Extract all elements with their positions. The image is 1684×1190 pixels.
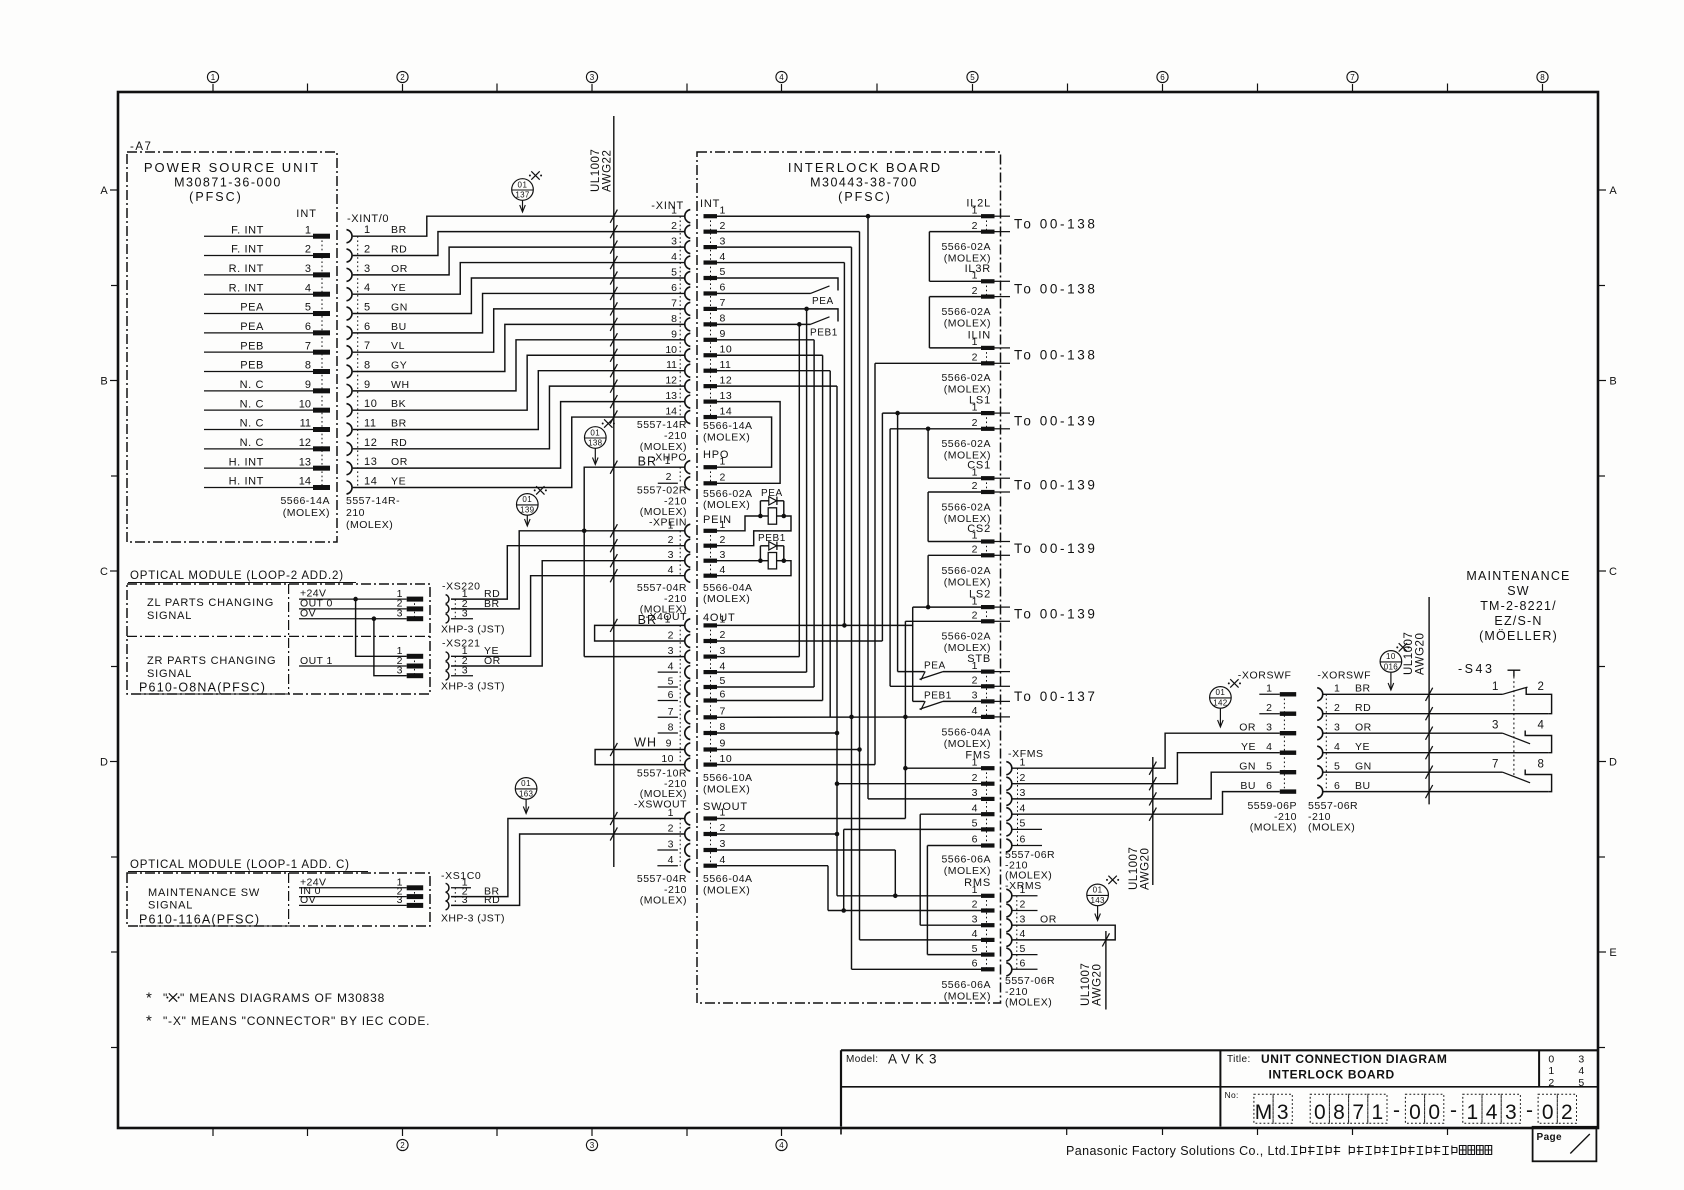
svg-text:1: 1 [972,756,978,768]
svg-text:1: 1 [665,614,671,626]
svg-text:1: 1 [305,224,311,236]
board connector INT [700,198,753,444]
wire INT-3 horizontal [717,246,852,248]
svg-text:5566-02A: 5566-02A [941,631,991,643]
svg-text:RD: RD [391,244,407,256]
svg-text:POWER SOURCE UNIT: POWER SOURCE UNIT [144,160,320,175]
svg-text:INTERLOCK BOARD: INTERLOCK BOARD [788,160,942,175]
wire FMS-5 row [844,828,981,830]
svg-text:(MOLEX): (MOLEX) [703,885,750,897]
svg-text:*: * [146,1013,152,1030]
svg-text:OR: OR [484,655,501,667]
svg-text:XHP-3 (JST): XHP-3 (JST) [441,681,505,693]
wire SWOUT-3 to RMS-1 junction [893,850,898,898]
wire INT-3 to RMS-6 [849,247,854,969]
svg-text:5: 5 [305,302,311,314]
svg-text:4: 4 [1266,741,1272,753]
wire 4OUT-8 row [717,732,837,734]
svg-text:-XINT: -XINT [651,200,684,212]
svg-text:2: 2 [972,544,978,556]
svg-text:3: 3 [397,665,403,677]
optical module loop-1 box [127,873,430,926]
svg-text:R. INT: R. INT [229,263,264,275]
board connector STB [941,653,1010,750]
svg-text:PEIN: PEIN [703,514,732,526]
svg-text:0: 0 [1409,1101,1421,1124]
net label To 00-139 [1014,414,1097,429]
svg-text:PEB1: PEB1 [924,690,952,701]
svg-text:5557-14R-: 5557-14R- [346,495,400,507]
svg-text:UL1007: UL1007 [1128,847,1140,890]
svg-text:6: 6 [668,689,674,701]
wire LS1-2 to CS1-1 [926,427,931,479]
svg-text:(MOLEX): (MOLEX) [703,432,750,444]
svg-text:BK: BK [391,398,406,410]
svg-text:9: 9 [305,379,311,391]
svg-text:3: 3 [972,690,978,702]
svg-text:5: 5 [970,73,975,82]
svg-text:(MOLEX): (MOLEX) [944,865,991,877]
svg-text:-: - [1450,1099,1457,1122]
svg-text:BU: BU [1355,780,1371,792]
svg-text:1: 1 [211,73,216,82]
svg-text:-XORSWF: -XORSWF [1317,670,1371,682]
svg-text:PEB: PEB [240,360,264,372]
svg-text:2: 2 [972,610,978,622]
svg-text:4: 4 [720,660,726,672]
svg-text:5: 5 [720,266,726,278]
svg-text:6: 6 [720,282,726,294]
svg-text:F. INT: F. INT [231,244,264,256]
svg-text:4: 4 [668,564,674,576]
right ruler row letters A-E [1598,185,1617,1048]
svg-text:4: 4 [668,661,674,673]
svg-text:9: 9 [666,738,672,750]
wire INT-4 to 4OUT-1 [842,263,847,628]
cable UL1007 AWG22 vertical line [590,116,614,867]
svg-text:7: 7 [1352,1101,1364,1124]
drawing frame border [118,92,1598,1128]
svg-text:4: 4 [720,251,726,263]
wire FMS-5 to RMS-2 junction [841,829,846,912]
label 5566-02A under CS1 [941,502,991,526]
svg-text:2: 2 [671,220,677,232]
svg-text:F. INT: F. INT [231,224,264,236]
switch contact PEB1 at STB-3 [913,690,981,710]
svg-text:2: 2 [720,534,726,546]
svg-text:MAINTENANCE: MAINTENANCE [1466,569,1570,583]
svg-text:YE: YE [1355,741,1370,753]
svg-text:OR: OR [391,456,408,468]
svg-text:AWG20: AWG20 [1140,848,1152,890]
wire INT-10 to 4OUT-6 [822,355,824,700]
svg-text:1: 1 [668,807,674,819]
wire ILIN-2 row [875,362,981,364]
wire -XINT/0 pin 11 to -XINT pin 11 [353,364,684,429]
svg-text:9: 9 [671,328,677,340]
optical module loop-2 box [127,584,430,694]
label 5566-02A under CS2 [941,565,991,589]
wire -XINT/0 pin 1 to -XINT pin 1 [353,210,684,237]
svg-text:3: 3 [720,549,726,561]
wire FMS-6 to RMS-5 [926,846,928,955]
wire -XORSWF-6 to -S43 [1323,785,1548,798]
svg-text:7: 7 [1492,759,1499,771]
svg-text:7: 7 [720,706,726,718]
svg-text:2: 2 [668,630,674,642]
svg-text:2: 2 [972,285,978,297]
wire FMS-4 to RMS-3 [919,814,921,925]
svg-text:GN: GN [1355,760,1372,772]
svg-text:01: 01 [1093,886,1103,895]
svg-text:2: 2 [972,899,978,911]
note: diagrams of M30838 [146,990,385,1007]
svg-text:To 00-138: To 00-138 [1014,282,1097,297]
net label To 00-137 [1014,689,1097,704]
svg-text:13: 13 [299,456,311,468]
board connector 4OUT [703,612,753,796]
svg-text:(MOLEX): (MOLEX) [703,593,750,605]
svg-text:To 00-139: To 00-139 [1014,541,1097,556]
board connector IL3R [965,263,1010,299]
connector -XINT [637,200,690,464]
svg-text:N. C: N. C [240,398,264,410]
wire LS2-1 row [913,606,981,608]
wire INT-13 to HPO-2 [717,402,780,484]
wire INT-1 to IL2L-1 [717,215,981,217]
svg-text:BR: BR [1355,683,1371,695]
svg-text:1: 1 [972,466,978,478]
wire PEA to PEIN-2 [717,516,791,546]
wire -XINT/0 pin 3 to -XINT pin 3 [353,241,684,275]
title block [841,1050,1597,1126]
svg-text:016: 016 [1384,663,1398,672]
svg-text:MAINTENANCE SW: MAINTENANCE SW [148,887,260,899]
svg-text:-XORSWF: -XORSWF [1238,670,1292,682]
svg-text:3: 3 [1578,1053,1584,1065]
svg-text:11: 11 [364,418,377,430]
svg-text:2: 2 [720,220,726,232]
svg-text:137: 137 [515,191,529,200]
svg-text:1: 1 [1334,683,1340,695]
svg-text:YE: YE [391,475,406,487]
svg-text:(MOLEX): (MOLEX) [944,738,991,750]
svg-text:IL2L: IL2L [966,198,991,210]
diagram reference 10/016 [1380,643,1409,690]
svg-text:1: 1 [1266,683,1272,695]
svg-text:PEB1: PEB1 [810,328,838,339]
board connector LS1 [969,395,1010,431]
svg-text:6: 6 [1266,780,1272,792]
svg-text:3: 3 [1020,787,1026,799]
svg-text:To 00-137: To 00-137 [1014,689,1097,704]
wire -XINT/0 pin 10 to -XINT pin 10 [353,349,684,411]
svg-text:4: 4 [305,282,311,294]
svg-text:139: 139 [520,506,534,515]
svg-text:4: 4 [720,854,726,866]
svg-text:5: 5 [1020,943,1026,955]
wire IL3R-2 to ILIN-1 [928,297,930,348]
connector -XORSWF receptacle [1308,670,1372,834]
svg-text:" MEANS DIAGRAMS OF M30838: " MEANS DIAGRAMS OF M30838 [180,991,385,1005]
svg-text:9: 9 [720,328,726,340]
svg-text:WH: WH [391,379,410,391]
connector -XRMS [1005,880,1057,1009]
svg-text:3: 3 [668,645,674,657]
svg-text:BR: BR [638,455,657,469]
connector -XFMS [1005,748,1055,882]
wire FMS-1 row [905,767,981,769]
svg-text:5566-02A: 5566-02A [941,438,991,450]
svg-text:-XINT/0: -XINT/0 [347,213,389,225]
svg-text:PEA: PEA [924,661,946,672]
svg-text:8: 8 [1538,759,1545,771]
wire INT-2 to RMS-4 [857,232,862,940]
svg-text:D: D [1609,757,1617,769]
svg-text:5: 5 [668,676,674,688]
svg-text:OR: OR [1239,721,1256,733]
svg-text:3: 3 [668,549,674,561]
svg-text:6: 6 [972,958,978,970]
wire IL2L-2 row [929,231,981,233]
svg-text:YE: YE [1241,741,1256,753]
svg-text:5: 5 [972,943,978,955]
cable UL1007 AWG20 at XFMS [1128,757,1153,890]
svg-text:8: 8 [720,313,726,325]
svg-text:*: * [146,990,152,1007]
svg-text:(PFSC): (PFSC) [838,190,892,204]
svg-text:5566-02A: 5566-02A [941,241,991,253]
svg-text:(MÖELLER): (MÖELLER) [1479,629,1558,643]
power source unit connector INT [204,208,330,519]
svg-text:2: 2 [972,675,978,687]
svg-text:RD: RD [484,894,500,906]
svg-text:WH: WH [634,736,657,750]
connector -XS221 [441,638,505,693]
wire -XHPO-1 BR net to -XPEIN-1 and -XS220-2 [451,461,684,657]
interlock board title [788,160,942,204]
wire -XINT/0 pin 12 to -XINT pin 12 [353,380,684,449]
svg-text:1: 1 [364,224,371,236]
svg-text:6: 6 [1160,73,1165,82]
svg-text:0: 0 [1314,1101,1326,1124]
svg-text:3: 3 [462,608,468,620]
diagram reference 01/138 [585,419,615,464]
ZR signal wires [299,645,423,678]
svg-text:7: 7 [305,340,311,352]
svg-text:M30871-36-000: M30871-36-000 [174,176,282,190]
svg-text:1: 1 [720,614,726,626]
svg-text:138: 138 [588,439,602,448]
wire IL2L-2 to IL3R-1 [928,232,930,282]
svg-text:D: D [100,757,108,769]
svg-text:XHP-3 (JST): XHP-3 (JST) [441,913,505,925]
svg-text:12: 12 [299,437,311,449]
drawing number cell No: M3 0871-00-143-02 [1225,1090,1577,1124]
net label To 00-139 [1014,541,1097,556]
svg-text:2: 2 [1561,1101,1573,1124]
label 5566-02A under LS2 [941,631,991,655]
svg-text:C: C [1609,566,1617,578]
svg-text:R. INT: R. INT [229,282,264,294]
svg-text:1: 1 [972,204,978,216]
svg-text:1: 1 [720,807,726,819]
svg-text:FMS: FMS [965,750,991,762]
svg-text:N. C: N. C [240,437,264,449]
svg-text:3: 3 [590,73,595,82]
svg-text:10: 10 [1386,652,1396,661]
svg-text:3: 3 [1492,720,1499,732]
wire -XPEIN-2 to -XS220-1 [451,539,684,599]
wire INT-10 horizontal [717,354,823,356]
svg-text:10: 10 [720,343,733,355]
svg-text:M30443-38-700: M30443-38-700 [810,176,918,190]
svg-text:(MOLEX): (MOLEX) [944,577,991,589]
svg-text:To 00-139: To 00-139 [1014,478,1097,493]
svg-text:8: 8 [1540,73,1545,82]
svg-text:4: 4 [720,564,726,576]
wire 4OUT-6 row [717,700,823,702]
wire INT-14 to HPO-1 [717,417,772,467]
svg-text:3: 3 [720,235,726,247]
diagram reference 01/143 [1087,876,1119,921]
wire LS2-2 to FMS-1 and SWOUT-1 [903,621,908,818]
svg-text:H. INT: H. INT [229,476,264,488]
wire SWOUT-2 row [717,833,837,835]
wire -XFMS-4 to -XORSWF-6 [1013,792,1280,821]
svg-text:1: 1 [1020,884,1026,896]
svg-text:3: 3 [972,913,978,925]
wire -XORSWF-3 to -S43 [1323,727,1502,740]
svg-text:4: 4 [364,282,371,294]
svg-text:P610-O8NA(PFSC): P610-O8NA(PFSC) [139,681,266,695]
wire ILIN-2 to 4OUT-10 [874,363,876,764]
svg-text:2: 2 [364,244,371,256]
svg-text:OV: OV [300,894,316,906]
svg-text:7: 7 [668,706,674,718]
wire CS2-1 row [928,541,981,543]
net label To 00-138 [1014,348,1097,363]
svg-text:1: 1 [720,204,726,216]
board connector PEIN [703,488,753,605]
svg-text:10: 10 [299,398,311,410]
svg-text:9: 9 [364,379,371,391]
svg-text:8: 8 [668,722,674,734]
svg-text:3: 3 [671,236,677,248]
svg-text:4: 4 [972,802,978,814]
svg-text:UNIT CONNECTION DIAGRAM: UNIT CONNECTION DIAGRAM [1261,1052,1447,1066]
svg-text:2: 2 [972,220,978,232]
svg-text:142: 142 [1213,699,1227,708]
svg-text:UL1007: UL1007 [590,149,602,192]
note: -X means connector by IEC code [146,1013,430,1030]
label 5566-02A under IL3R [941,306,991,330]
wire -XPEIN-4 to -XS221-1 [451,569,684,656]
svg-text:3: 3 [462,894,468,906]
svg-text:E: E [1609,947,1616,959]
svg-text:3: 3 [1020,913,1026,925]
svg-text:13: 13 [665,390,677,402]
svg-text:5566-10A: 5566-10A [703,772,753,784]
wire -XINT/0 pin 9 to -XINT pin 9 [353,333,684,391]
diode network PEB1 at PEIN [758,533,786,569]
connector -XORSWF plug [1238,670,1297,834]
switch contact PEB1 (INT-7/INT-8) [717,307,838,339]
svg-text:1: 1 [972,595,978,607]
svg-text:3: 3 [668,839,674,851]
label 5566-02A under LS1 [941,438,991,462]
wire -XINT/0 pin 8 to -XINT pin 8 [353,318,684,372]
svg-text:1: 1 [972,884,978,896]
svg-text:-: - [1526,1099,1533,1122]
svg-text:RD: RD [1355,702,1371,714]
wire INT-1 horizontal [717,215,868,217]
wire LS2-2 row [905,620,981,622]
svg-text:5566-02A: 5566-02A [941,306,991,318]
svg-text:To 00-138: To 00-138 [1014,217,1097,232]
left ruler row letters A-D [100,185,118,1048]
svg-text:8: 8 [720,721,726,733]
wire CS1-2 to CS2-1 [927,492,929,542]
ZL signal wires +24V OUT0 OV [299,588,423,622]
svg-text:3: 3 [305,263,311,275]
svg-text:10: 10 [661,753,674,765]
net label To 00-138 [1014,282,1097,297]
svg-text:7: 7 [364,340,371,352]
svg-text:10: 10 [665,344,677,356]
wire LS1-1 to STB-1 [895,411,900,672]
svg-text:12: 12 [364,437,377,449]
wire 4OUT-5 row [717,686,814,688]
svg-text:(MOLEX): (MOLEX) [944,991,991,1003]
wire -XORSWF-1 to -S43 [1323,688,1502,701]
svg-text:1: 1 [972,530,978,542]
svg-text:OPTICAL MODULE (LOOP-2 ADD.2): OPTICAL MODULE (LOOP-2 ADD.2) [130,570,344,582]
svg-text:2: 2 [720,629,726,641]
connector -X4OUT [634,613,690,811]
svg-text:1: 1 [1020,756,1026,768]
wire INT-9 to 4OUT-5 [813,340,815,687]
svg-text:1: 1 [972,336,978,348]
wire 4OUT-4 row [717,671,807,673]
net label To 00-139 [1014,607,1097,622]
svg-text:10: 10 [364,398,377,410]
svg-text:2: 2 [972,352,978,364]
wire INT-11 to 4OUT-7 [829,371,831,718]
svg-text:(MOLEX): (MOLEX) [703,499,750,511]
svg-text:5566-02A: 5566-02A [941,565,991,577]
svg-text:14: 14 [720,405,733,417]
board connector CS2 [967,523,1010,557]
optical module loop-2 heading [128,570,356,583]
svg-text:H. INT: H. INT [229,456,264,468]
svg-text:AWG20: AWG20 [1415,633,1427,675]
svg-text:11: 11 [666,359,677,371]
svg-text:2: 2 [972,772,978,784]
svg-text:(MOLEX): (MOLEX) [1005,997,1052,1009]
wire CS1-1 row [928,477,981,479]
wire 4OUT-3 row [717,656,799,658]
svg-text:INT: INT [296,208,317,220]
svg-text:5: 5 [364,302,371,314]
wire LS1-1 to 4OUT-2 [881,413,883,641]
label 5566-02A under ILIN [941,372,991,396]
svg-text:3: 3 [590,1141,595,1150]
wire -XINT/0 pin 2 to -XINT pin 2 [353,225,684,255]
svg-text:4: 4 [668,854,674,866]
bottom ruler ticks and numbers 2-4 [213,1128,1448,1151]
interlock board box [697,152,1001,1003]
